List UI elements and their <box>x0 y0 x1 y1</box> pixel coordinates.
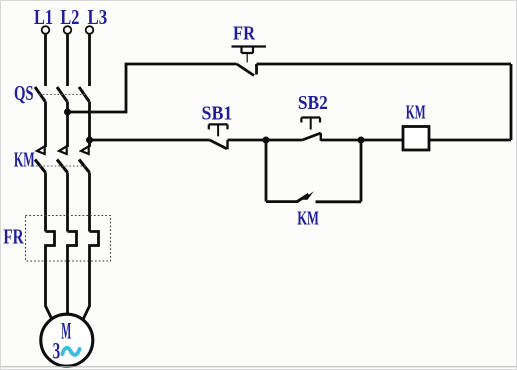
svg-text:M: M <box>61 319 71 344</box>
svg-text:FR: FR <box>233 22 255 44</box>
wire aux branch bottom left <box>266 200 297 203</box>
motor M circle <box>41 314 93 366</box>
contactor KM main fixed contact 1 <box>37 146 45 154</box>
pushbutton SB2 NO contact <box>302 133 321 141</box>
svg-text:L2: L2 <box>60 5 79 29</box>
wire L2 to QS <box>66 34 69 86</box>
node L3 terminal <box>86 26 94 34</box>
node control tap L3 <box>86 137 93 144</box>
svg-text:KM: KM <box>297 208 319 230</box>
pushbutton SB1 actuator <box>209 124 228 136</box>
wire KM to FR 3 <box>88 173 91 232</box>
wire KM to FR 1 <box>44 173 47 232</box>
svg-text:KM: KM <box>406 102 426 124</box>
svg-text:3: 3 <box>53 339 61 364</box>
FR heater element 3 <box>90 232 99 262</box>
wire QS to KM pole 2 <box>66 102 69 148</box>
wire right to coil <box>429 139 511 142</box>
node control tap L2 <box>64 109 71 116</box>
contactor KM main blade 3 <box>79 160 90 173</box>
relay FR NC contact <box>237 64 257 76</box>
KM linkage dashed <box>36 165 86 167</box>
contactor KM aux NO contact <box>297 191 314 202</box>
wire KM to FR 2 <box>66 173 69 232</box>
node aux right <box>358 137 365 144</box>
relay FR NC contact actuator <box>232 47 267 63</box>
node L1 terminal <box>42 26 50 34</box>
wire rung left <box>90 139 210 142</box>
wire L1 to QS <box>44 34 47 86</box>
wire right side down <box>510 64 513 140</box>
svg-text:L3: L3 <box>88 5 108 29</box>
border bottom hairline <box>0 366 517 368</box>
wire coil to node <box>321 139 403 142</box>
switch QS pole 2 blade <box>57 87 67 102</box>
svg-text:SB1: SB1 <box>202 103 233 125</box>
wire FR to motor 2 <box>66 261 69 316</box>
pushbutton SB1 NC contact <box>210 140 228 149</box>
contactor KM main fixed contact 3 <box>81 146 89 154</box>
contactor KM main blade 2 <box>57 160 68 173</box>
wire control feed up <box>68 64 237 112</box>
wire FR to motor 3 <box>83 261 90 321</box>
motor wave symbol <box>63 348 80 355</box>
pushbutton SB2 actuator <box>301 118 320 130</box>
switch QS pole 3 blade <box>79 87 89 102</box>
contactor KM main blade 1 <box>35 160 46 173</box>
node aux left <box>263 137 270 144</box>
wire FR to motor 1 <box>46 261 53 321</box>
wire QS to KM pole 1 <box>44 102 47 148</box>
wire aux branch right vertical <box>360 140 363 202</box>
wire top right <box>257 63 512 66</box>
FR heater element 1 <box>46 232 55 262</box>
svg-text:L1: L1 <box>34 5 53 29</box>
svg-text:FR: FR <box>3 225 24 249</box>
coil KM <box>403 127 429 151</box>
wire QS to KM pole 3 <box>88 102 91 148</box>
switch QS pole 1 blade <box>35 87 45 102</box>
svg-text:QS: QS <box>14 81 34 105</box>
svg-text:KM: KM <box>14 148 35 172</box>
svg-text:SB2: SB2 <box>298 92 328 114</box>
contactor KM main fixed contact 2 <box>59 146 67 154</box>
node L2 terminal <box>64 26 72 34</box>
wire SB2 to SB1 <box>228 139 303 142</box>
wire aux branch bottom right <box>316 200 362 203</box>
QS linkage dashed <box>39 94 87 96</box>
wire aux branch left vertical <box>265 140 268 202</box>
wire L3 to QS <box>88 34 91 86</box>
thermal relay FR box dashed <box>26 216 111 262</box>
FR heater element 2 <box>68 232 77 262</box>
